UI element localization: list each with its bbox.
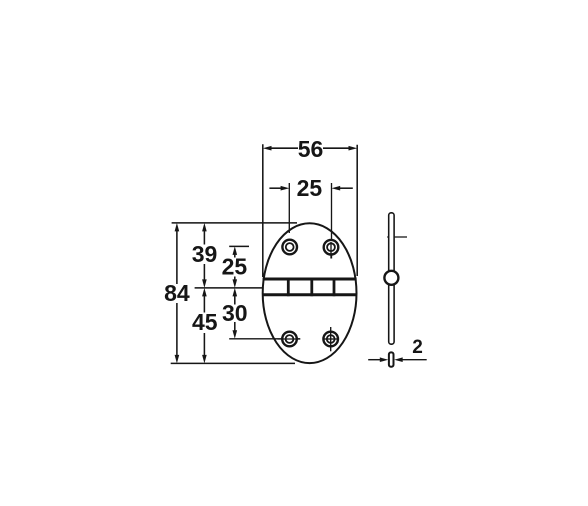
svg-text:25: 25: [222, 254, 248, 280]
svg-text:39: 39: [192, 241, 218, 267]
svg-text:45: 45: [192, 309, 218, 335]
svg-text:56: 56: [298, 136, 324, 162]
svg-text:25: 25: [297, 175, 323, 201]
svg-text:2: 2: [412, 337, 423, 358]
svg-text:84: 84: [164, 280, 190, 306]
svg-text:30: 30: [222, 300, 248, 326]
